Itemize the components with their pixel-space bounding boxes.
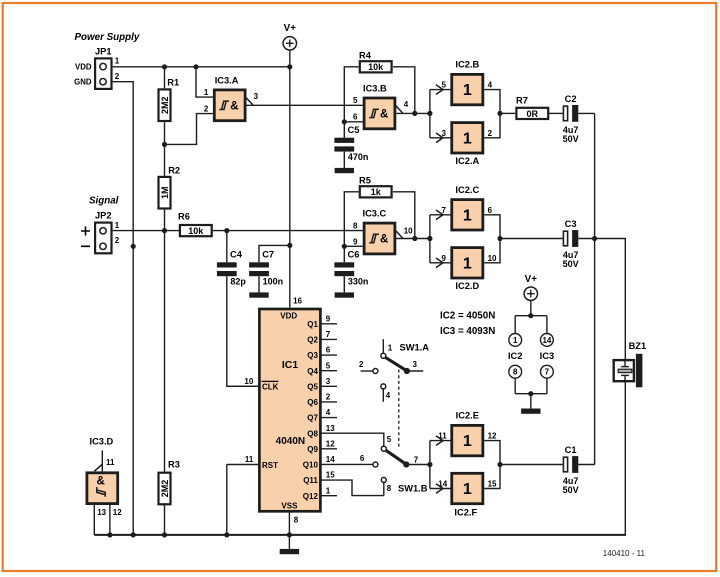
wire IC3.C pin9 — [344, 245, 363, 247]
svg-text:8: 8 — [513, 368, 518, 377]
node R1-R2 — [162, 142, 167, 147]
wire R5 right lead — [393, 192, 415, 239]
buffer IC2.C — [442, 185, 493, 230]
svg-text:330n: 330n — [348, 277, 369, 287]
svg-text:IC2.A: IC2.A — [455, 156, 479, 166]
svg-text:0R: 0R — [527, 109, 539, 119]
wire R4 left lead — [344, 67, 358, 122]
svg-text:50V: 50V — [563, 134, 579, 144]
wire IC3 pin7 lead — [546, 378, 548, 394]
capacitor C1 — [563, 445, 579, 495]
wire V+ stub — [289, 50, 291, 67]
wire C5 bottom lead — [343, 152, 345, 168]
svg-text:2: 2 — [115, 72, 120, 81]
svg-text:14: 14 — [438, 480, 447, 489]
wire R5 left lead — [344, 192, 358, 247]
svg-text:1: 1 — [388, 343, 393, 352]
wire C6 bottom lead — [343, 276, 345, 292]
V+ supply symbol mid — [524, 274, 537, 300]
svg-text:&: & — [380, 234, 388, 246]
wire C7 bottom lead — [258, 276, 260, 292]
svg-text:IC3 = 4093N: IC3 = 4093N — [440, 326, 495, 337]
switch SW1.B — [360, 435, 430, 496]
wire C3 right — [578, 238, 594, 240]
wire IC2.E output — [484, 441, 500, 465]
svg-text:11: 11 — [438, 432, 447, 441]
svg-text:1: 1 — [463, 433, 472, 450]
capacitor C4 — [217, 250, 247, 287]
svg-text:14: 14 — [326, 455, 335, 464]
wire R1 top lead — [164, 67, 166, 89]
svg-text:9: 9 — [442, 254, 447, 263]
node R3 rail — [162, 532, 167, 537]
svg-text:Q12: Q12 — [303, 492, 319, 501]
svg-text:R4: R4 — [359, 50, 372, 60]
svg-text:2M2: 2M2 — [160, 96, 170, 114]
wire to C3 — [500, 238, 563, 240]
wire output bus vertical — [594, 113, 596, 464]
svg-text:4: 4 — [326, 408, 331, 417]
wire buffer split vertical BA — [429, 90, 431, 138]
svg-text:R5: R5 — [359, 175, 371, 185]
svg-text:100n: 100n — [263, 277, 284, 287]
node IC3.C pin9 — [342, 244, 347, 249]
svg-text:15: 15 — [326, 471, 335, 480]
svg-text:7: 7 — [442, 206, 447, 215]
wire R6 to IC3.C pin8 — [213, 230, 363, 232]
wire IC2.B input — [430, 85, 451, 95]
wire R3 bottom lead — [164, 503, 166, 535]
connector JP1 — [74, 46, 120, 89]
svg-text:SW1.B: SW1.B — [398, 483, 428, 493]
svg-text:12: 12 — [113, 508, 122, 517]
label Power Supply — [75, 32, 140, 43]
node R2 bottom — [162, 228, 167, 233]
wire IC3.D pin13 — [93, 505, 95, 535]
svg-text:IC3.B: IC3.B — [363, 84, 387, 94]
svg-text:5: 5 — [326, 361, 331, 370]
svg-text:IC1: IC1 — [282, 359, 299, 371]
wire IC3.C output — [396, 238, 430, 240]
svg-text:R1: R1 — [167, 78, 179, 88]
svg-text:1: 1 — [326, 486, 331, 495]
svg-text:VSS: VSS — [281, 502, 298, 511]
wire JP1.2 ground — [113, 82, 134, 535]
svg-text:Q11: Q11 — [303, 476, 318, 485]
wire R7 to C2 — [547, 112, 562, 114]
wire C2 right — [578, 112, 594, 114]
node R1 top — [162, 64, 167, 69]
svg-text:IC2: IC2 — [508, 351, 522, 361]
svg-text:6: 6 — [326, 346, 331, 355]
svg-text:C1: C1 — [565, 445, 577, 455]
svg-text:470n: 470n — [348, 152, 369, 162]
wire power bottom bar — [515, 393, 547, 395]
svg-text:3: 3 — [254, 92, 259, 101]
svg-text:Q6: Q6 — [307, 398, 318, 407]
svg-text:10: 10 — [244, 377, 253, 386]
node IC3.A pin1 branch — [193, 64, 198, 69]
wire IC2 pin8 lead — [514, 378, 516, 394]
node V+ — [287, 64, 292, 69]
svg-text:2M2: 2M2 — [160, 480, 170, 498]
wire C7 top lead — [259, 245, 290, 262]
wire R4 right lead — [393, 67, 415, 114]
buffer IC2.F — [438, 473, 497, 517]
resistor R4 — [359, 50, 392, 72]
resistor R7 — [516, 96, 548, 119]
svg-text:1: 1 — [463, 207, 472, 224]
node buffer split C/D — [427, 236, 432, 241]
svg-text:10k: 10k — [188, 226, 204, 236]
svg-text:12: 12 — [326, 439, 335, 448]
node IC3.B pin6 — [342, 119, 347, 124]
svg-text:IC2.D: IC2.D — [455, 281, 479, 291]
wire IC2.F output — [484, 465, 500, 489]
wire IC2.D output — [484, 239, 500, 263]
svg-text:1: 1 — [513, 336, 518, 345]
wire IC2.F input — [430, 484, 451, 494]
node buffer split B/A — [427, 111, 432, 116]
svg-text:R3: R3 — [168, 460, 180, 470]
ground power block — [521, 409, 540, 414]
svg-text:Q10: Q10 — [303, 461, 319, 470]
wire buzzer bottom — [624, 383, 626, 535]
svg-text:Q2: Q2 — [307, 336, 318, 345]
pin IC2 pin8 — [509, 365, 522, 378]
capacitor C2 — [563, 94, 579, 144]
wire IC2.D input — [430, 258, 451, 268]
wire power ground stub — [530, 394, 532, 409]
wire IC2.C output — [484, 215, 500, 239]
svg-text:7: 7 — [326, 330, 331, 339]
svg-text:R6: R6 — [178, 211, 190, 221]
node R5 feedback — [412, 236, 417, 241]
node power top — [528, 313, 533, 318]
wire buffer split vertical EF — [429, 441, 431, 489]
svg-text:10k: 10k — [368, 62, 384, 72]
svg-text:IC3.A: IC3.A — [215, 75, 239, 85]
pin IC2 pin1 — [509, 334, 522, 347]
svg-text:IC2.E: IC2.E — [456, 411, 479, 421]
wire IC2.A input — [430, 133, 451, 143]
node power bottom — [528, 391, 533, 396]
svg-text:VDD: VDD — [280, 312, 297, 321]
label IC2 — [508, 351, 522, 361]
svg-text:RST: RST — [262, 461, 278, 470]
label IC2 = 4050N — [440, 310, 495, 321]
wire signal down to R3 — [164, 231, 166, 472]
svg-text:2: 2 — [204, 104, 209, 113]
svg-text:140410 - 11: 140410 - 11 — [603, 549, 646, 558]
svg-text:C6: C6 — [348, 250, 360, 260]
svg-text:12: 12 — [488, 432, 497, 441]
svg-text:4: 4 — [386, 391, 391, 400]
svg-text:Q4: Q4 — [307, 367, 318, 376]
svg-text:Q8: Q8 — [307, 429, 318, 438]
svg-text:GND: GND — [74, 78, 92, 87]
resistor R3 — [159, 460, 180, 505]
wire VSS ground stub — [288, 535, 290, 549]
svg-text:&: & — [230, 101, 238, 113]
svg-text:6: 6 — [353, 112, 358, 121]
wire C4 to CLK — [227, 276, 258, 386]
svg-text:1: 1 — [463, 130, 472, 147]
wire switch link dashed — [398, 370, 400, 448]
svg-text:1M: 1M — [160, 186, 170, 199]
svg-text:IC3.D: IC3.D — [90, 437, 114, 447]
switch SW1.A — [359, 339, 429, 402]
resistor R5 — [359, 175, 392, 197]
label Signal — [89, 196, 119, 207]
node R4 feedback — [412, 111, 417, 116]
wire C5 top lead — [343, 122, 345, 138]
node C7 tap — [287, 243, 292, 248]
node C1 feed — [497, 462, 502, 467]
svg-text:11: 11 — [106, 458, 115, 467]
wire bus to buzzer — [595, 239, 626, 359]
svg-text:V+: V+ — [284, 23, 297, 34]
svg-text:1: 1 — [463, 82, 472, 99]
op-gate IC3.D — [87, 437, 122, 517]
svg-text:11: 11 — [245, 455, 254, 464]
svg-text:6: 6 — [360, 454, 365, 463]
resistor R6 — [178, 211, 212, 236]
buffer IC2.A — [442, 123, 493, 166]
wires IC1 Q output stubs — [321, 324, 384, 496]
svg-text:1: 1 — [204, 88, 209, 97]
svg-text:7: 7 — [545, 368, 550, 377]
svg-text:1: 1 — [115, 221, 120, 230]
svg-text:2: 2 — [326, 393, 331, 402]
svg-text:1: 1 — [463, 481, 472, 498]
svg-text:Q7: Q7 — [307, 414, 318, 423]
wire C6 top lead — [343, 246, 345, 262]
svg-text:6: 6 — [488, 206, 493, 215]
svg-text:BZ1: BZ1 — [629, 341, 647, 351]
svg-text:2: 2 — [115, 236, 120, 245]
capacitor C6 — [334, 250, 368, 287]
buffer IC2.D — [442, 248, 498, 291]
svg-text:IC3: IC3 — [540, 351, 554, 361]
op-gate IC3.C — [353, 209, 413, 254]
wire IC3.B output — [396, 112, 430, 114]
svg-text:16: 16 — [293, 296, 302, 305]
wire R2 bottom lead — [164, 208, 166, 231]
svg-text:R2: R2 — [168, 166, 180, 176]
svg-text:C4: C4 — [230, 250, 243, 260]
svg-text:V+: V+ — [525, 274, 538, 285]
pin IC3 pin7 — [541, 365, 554, 378]
wire VSS pin8 — [288, 511, 290, 535]
label 140410 - 11 — [603, 549, 646, 558]
wire IC3.A pin2 branch — [165, 114, 213, 145]
wire IC3 pin14 lead — [546, 316, 548, 334]
svg-text:3: 3 — [442, 129, 447, 138]
svg-text:5: 5 — [442, 81, 447, 90]
wire IC2.A output — [484, 113, 500, 137]
wire IC3.A output to IC3.B pin5 — [247, 104, 363, 106]
svg-text:4: 4 — [404, 100, 409, 109]
svg-text:Signal: Signal — [89, 196, 119, 207]
ground C6 — [335, 292, 354, 297]
svg-text:C7: C7 — [262, 250, 274, 260]
svg-text:8: 8 — [387, 484, 392, 493]
svg-text:Q5: Q5 — [307, 382, 318, 391]
svg-text:7: 7 — [414, 455, 419, 464]
wire to R7 — [500, 112, 515, 114]
IC U1 counter IC1 4040N — [244, 296, 335, 524]
wire C4 top lead — [226, 231, 228, 263]
wire IC3.A pin1 branch — [196, 67, 213, 97]
svg-text:R7: R7 — [516, 96, 528, 106]
wire RST — [227, 465, 259, 535]
wire JP2.1 to R6 — [113, 230, 179, 232]
svg-text:5: 5 — [353, 96, 358, 105]
wire IC3.B pin6 — [344, 121, 363, 123]
svg-text:13: 13 — [326, 424, 335, 433]
svg-text:50V: 50V — [563, 485, 579, 495]
label IC3 — [540, 351, 554, 361]
wire R1 bottom lead — [164, 122, 166, 144]
wire IC2.E input — [430, 436, 451, 446]
svg-text:2: 2 — [359, 360, 364, 369]
svg-text:82p: 82p — [230, 277, 246, 287]
svg-text:4040N: 4040N — [276, 436, 305, 447]
node R7 feed — [497, 111, 502, 116]
svg-text:IC2 = 4050N: IC2 = 4050N — [440, 310, 495, 321]
resistor R2 — [159, 166, 181, 209]
svg-text:1: 1 — [115, 57, 120, 66]
node C3 join — [592, 236, 597, 241]
wire IC3.D output stub — [101, 450, 103, 471]
wire power top bar — [515, 315, 547, 317]
svg-text:8: 8 — [353, 221, 358, 230]
svg-text:1k: 1k — [371, 187, 382, 197]
node pin12 rail — [107, 532, 112, 537]
capacitor C7 — [249, 250, 283, 287]
svg-text:15: 15 — [488, 480, 497, 489]
ground C7 — [249, 292, 268, 297]
pin IC3 pin14 — [541, 334, 554, 347]
resistor R1 — [159, 78, 180, 121]
svg-text:CLK: CLK — [262, 383, 279, 392]
wire to C1 — [500, 464, 563, 466]
svg-text:SW1.A: SW1.A — [400, 343, 430, 353]
svg-text:3: 3 — [326, 377, 331, 386]
svg-text:JP1: JP1 — [95, 46, 112, 56]
ground C5 — [335, 168, 354, 173]
wire buffer split vertical CD — [429, 215, 431, 263]
svg-text:5: 5 — [387, 435, 392, 444]
wire R2 top lead — [164, 144, 166, 175]
svg-text:IC2.C: IC2.C — [455, 185, 479, 195]
svg-text:Q1: Q1 — [307, 320, 318, 329]
wire IC2.C input — [430, 210, 451, 220]
wire V+ down to IC1 pin16 — [289, 67, 291, 308]
op-gate IC3.B — [353, 84, 409, 129]
svg-text:C3: C3 — [565, 219, 577, 229]
svg-text:3: 3 — [413, 360, 418, 369]
label IC3 = 4093N — [440, 326, 495, 337]
buffer IC2.B — [442, 60, 493, 105]
wire CLK — [227, 385, 259, 387]
ground IC1 VSS — [280, 549, 299, 554]
node RST rail — [224, 532, 229, 537]
buzzer BZ1 — [614, 341, 646, 387]
svg-text:10: 10 — [404, 227, 413, 236]
wire JP1.1 to V+ rail — [113, 66, 290, 68]
node C4 tap — [224, 228, 229, 233]
node VSS rail — [287, 532, 292, 537]
svg-text:14: 14 — [542, 336, 551, 345]
svg-text:&: & — [97, 475, 105, 487]
wire IC3.D pin12 — [109, 505, 111, 535]
svg-text:9: 9 — [353, 238, 358, 247]
svg-text:4: 4 — [488, 81, 493, 90]
V+ supply symbol — [283, 23, 296, 50]
svg-text:Power Supply: Power Supply — [75, 32, 140, 43]
svg-text:IC3.C: IC3.C — [363, 209, 387, 219]
node JP2.2 join — [131, 244, 136, 249]
svg-text:10: 10 — [488, 254, 497, 263]
svg-text:Q3: Q3 — [307, 351, 318, 360]
node C3 feed — [497, 236, 502, 241]
wire IC2.B output — [484, 90, 500, 114]
svg-text:9: 9 — [326, 314, 331, 323]
svg-text:IC2.F: IC2.F — [454, 508, 477, 518]
node GND rail join — [131, 532, 136, 537]
svg-text:Q9: Q9 — [307, 445, 318, 454]
svg-text:VDD: VDD — [75, 62, 92, 71]
wire C1 right — [578, 464, 594, 466]
svg-text:13: 13 — [97, 508, 106, 517]
capacitor C3 — [563, 219, 579, 269]
svg-text:C2: C2 — [565, 94, 577, 104]
svg-text:1: 1 — [463, 255, 472, 272]
svg-text:8: 8 — [294, 515, 299, 524]
wire IC2 pin1 lead — [514, 316, 516, 334]
wire V+ mid stub — [530, 300, 532, 315]
svg-text:&: & — [380, 109, 388, 121]
svg-text:50V: 50V — [563, 259, 579, 269]
svg-text:2: 2 — [488, 129, 493, 138]
buffer IC2.E — [438, 411, 497, 456]
node buffer split E/F — [427, 462, 432, 467]
capacitor C5 — [334, 125, 368, 162]
wire bottom rail — [94, 534, 626, 536]
op-gate IC3.A — [204, 75, 259, 120]
svg-text:JP2: JP2 — [95, 210, 112, 220]
connector JP2 — [81, 210, 120, 253]
svg-text:C5: C5 — [348, 125, 360, 135]
svg-text:IC2.B: IC2.B — [455, 60, 479, 70]
